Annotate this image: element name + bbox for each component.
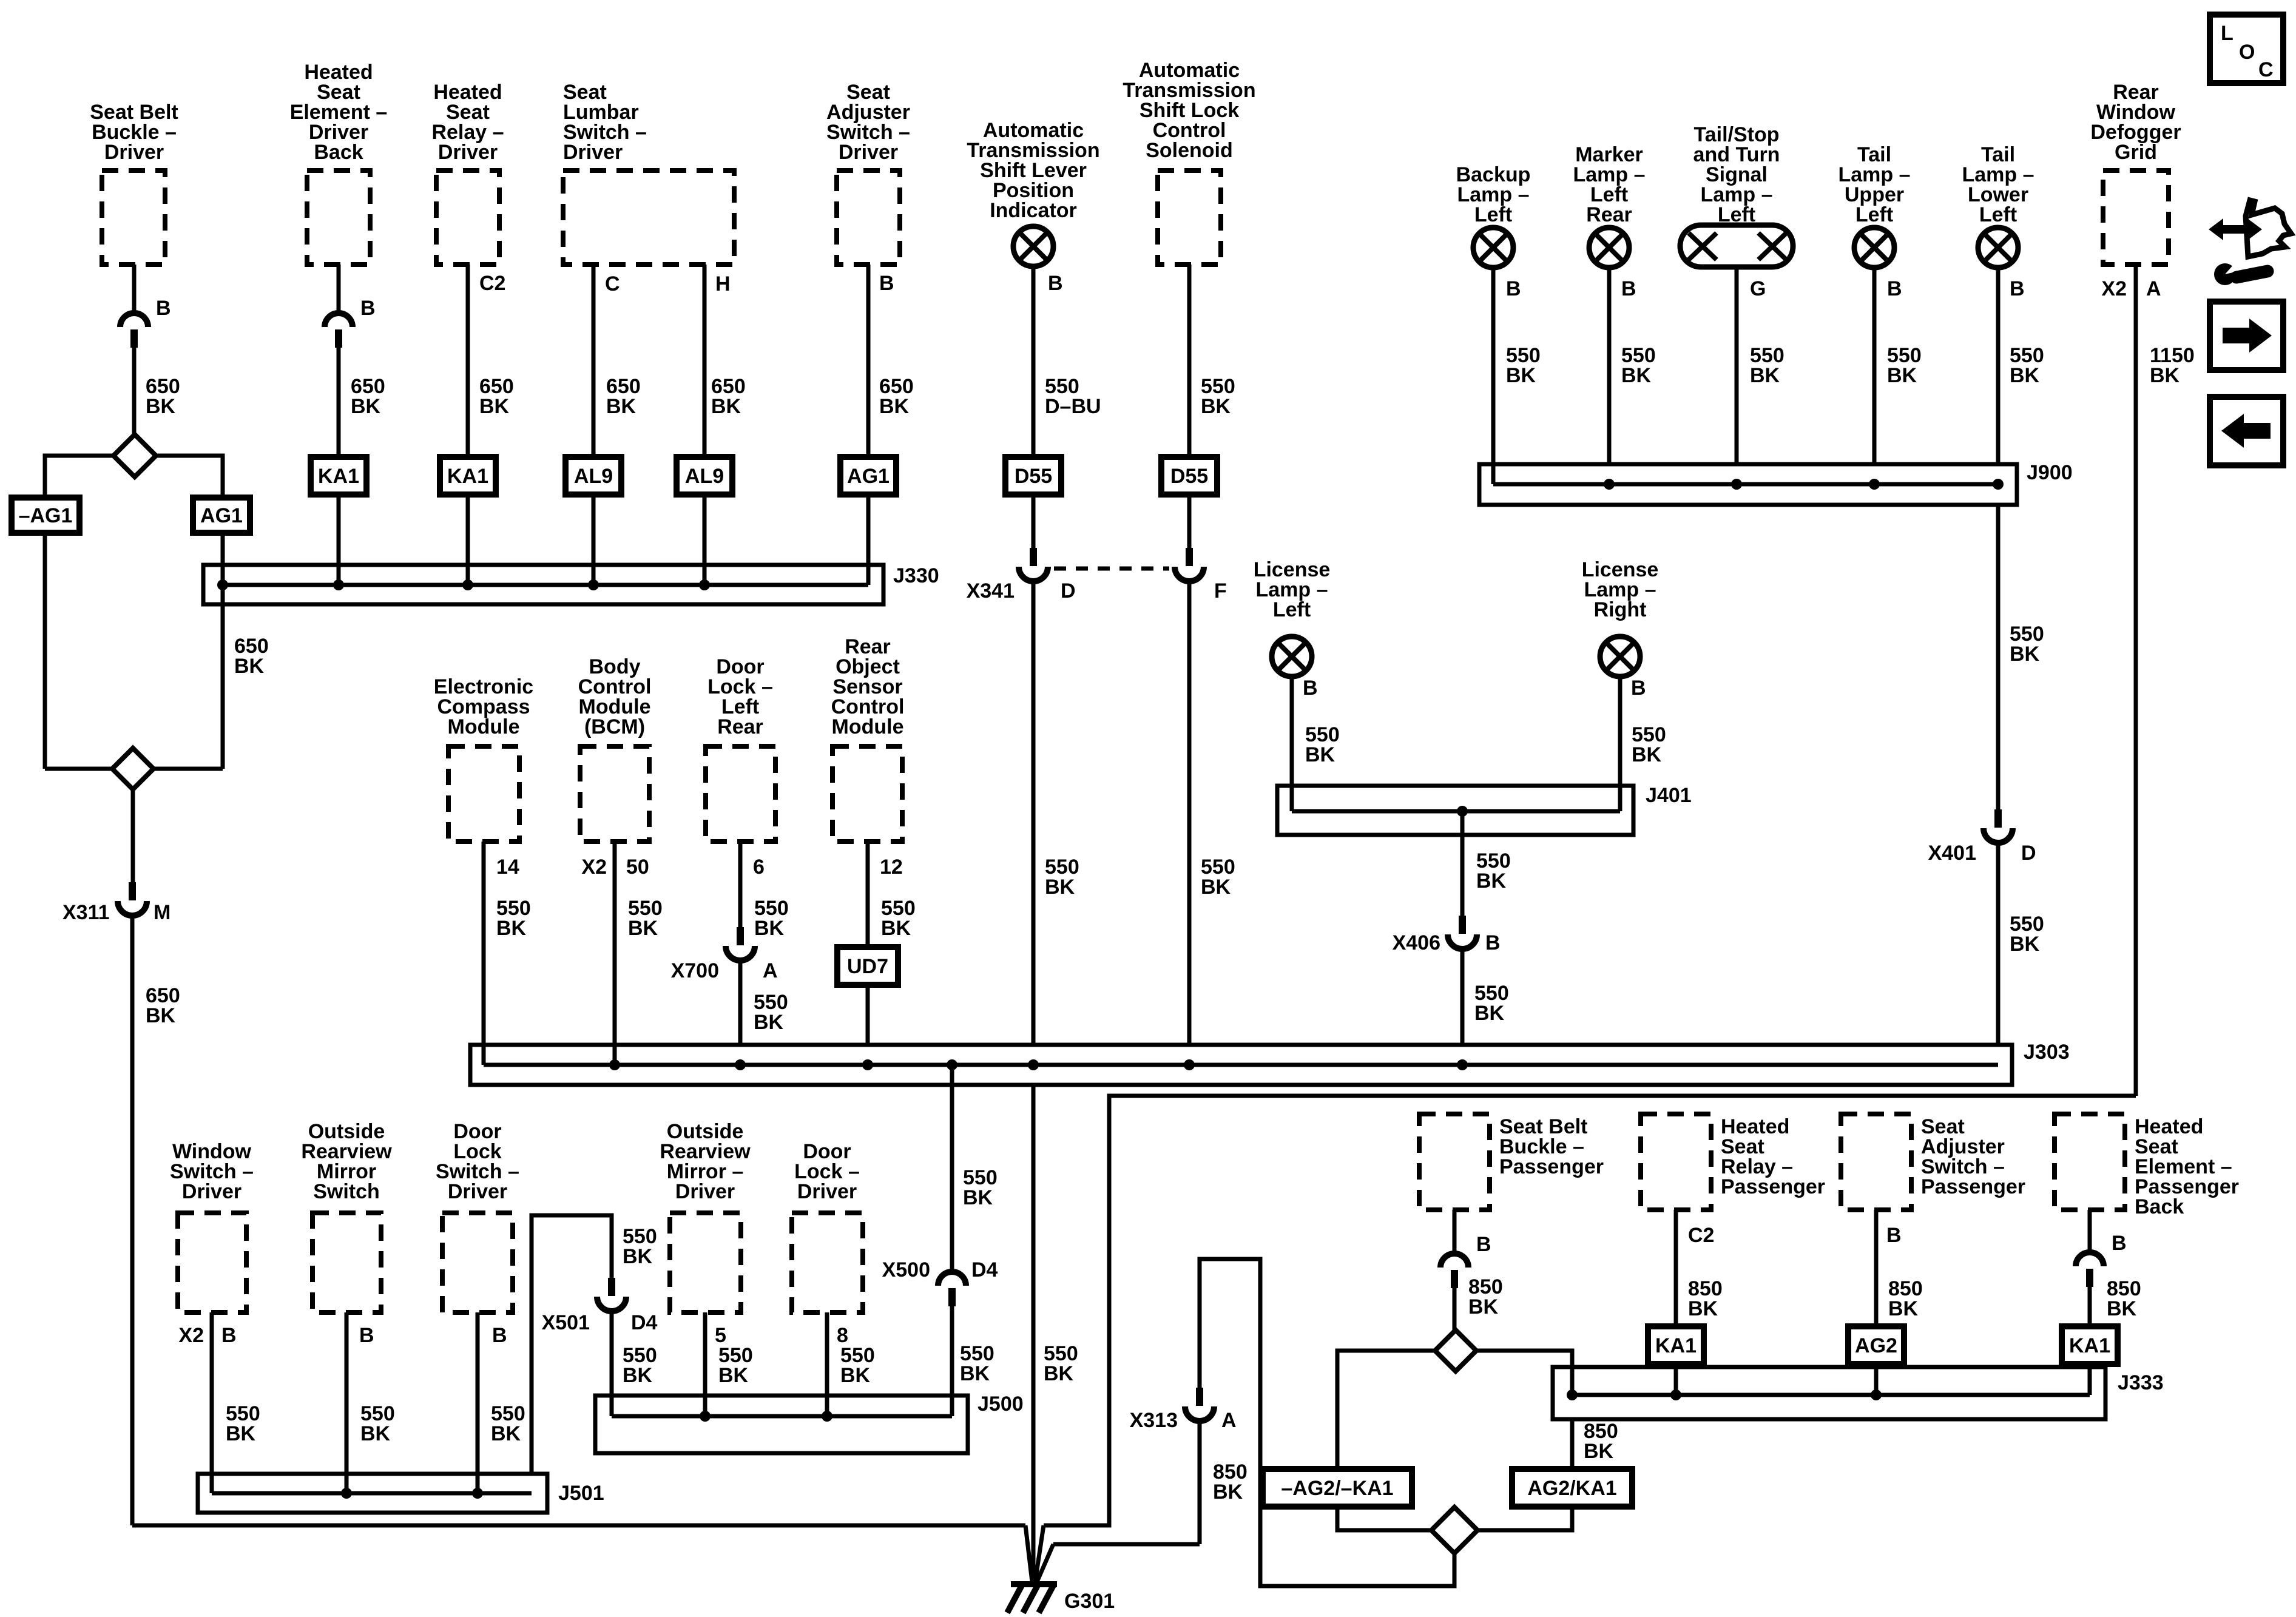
code box AG2/KA1 [1512,1469,1632,1507]
wire relay KA1 to J330 [466,495,470,585]
svg-text:Driver: Driver [797,1180,857,1203]
wire indicator pin B [1032,266,1036,457]
wire solenoid down [1187,265,1192,457]
svg-text:D: D [1061,579,1076,603]
svg-text:BK: BK [360,1422,391,1445]
wire splice S3 left branch to -AG2/-KA1 [1337,1351,1435,1469]
component Heated Seat Relay - Passenger [1641,1114,1711,1210]
svg-text:A: A [2146,277,2161,300]
svg-text:D4: D4 [971,1258,998,1281]
svg-text:M: M [154,901,171,924]
svg-text:AG1: AG1 [847,465,890,488]
svg-text:BK: BK [146,395,176,418]
svg-text:X311: X311 [62,901,110,924]
svg-text:C2: C2 [479,272,505,295]
svg-text:BK: BK [226,1422,256,1445]
wire BCM X2 pin 50 [613,842,617,1065]
svg-text:(BCM): (BCM) [584,715,645,738]
dashed connector tie X341 D to F [1054,567,1169,571]
connector X313 cavity A [1196,1388,1203,1406]
svg-text:B: B [1506,277,1521,300]
svg-text:BK: BK [960,1362,990,1385]
wire splice S4 ground loop to X313 [1200,1259,1454,1586]
svg-text:Driver: Driver [675,1180,735,1203]
lamp license right [1600,636,1640,677]
svg-text:B: B [1621,277,1636,300]
wire lumbar pin C [592,265,596,457]
wire splice to AG1 branches [45,456,113,498]
svg-text:G301: G301 [1064,1590,1115,1613]
bus J330 [203,565,883,604]
svg-text:C: C [2258,58,2274,81]
icon previous page arrow [2210,397,2283,465]
svg-text:Driver: Driver [563,141,623,164]
svg-text:BK: BK [351,395,381,418]
wire 550 BK X341 F to J303 [1187,581,1192,1045]
svg-text:Passenger: Passenger [1921,1175,2025,1198]
svg-text:B: B [156,297,171,320]
svg-text:BK: BK [491,1422,521,1445]
svg-text:BK: BK [1688,1297,1718,1320]
svg-text:BK: BK [2010,933,2040,956]
wire D55 to X341 D [1032,495,1036,548]
svg-text:KA1: KA1 [1655,1334,1697,1357]
svg-text:Driver: Driver [104,141,164,164]
svg-text:L: L [2221,22,2234,45]
svg-text:BK: BK [1632,743,1662,766]
svg-text:BK: BK [2010,643,2040,666]
svg-text:BK: BK [1213,1480,1243,1504]
svg-text:BK: BK [2107,1297,2137,1320]
wire tail upper B [1872,268,1877,464]
svg-text:C2: C2 [1688,1224,1714,1247]
wire J333 feed to AG2/KA1 [1570,1419,1575,1469]
lamp license left [1272,636,1312,677]
wire adjuster passenger pin B [1874,1210,1879,1326]
code box KA1 passenger element [2062,1326,2118,1364]
svg-text:J401: J401 [1646,784,1692,807]
svg-text:A: A [763,959,778,982]
wire relay KA1 to J333 [1674,1364,1678,1395]
wire buckle passenger stub [1453,1210,1457,1255]
svg-text:BK: BK [711,395,741,418]
svg-text:B: B [360,297,376,320]
wire relay passenger pin C2 [1674,1210,1678,1326]
svg-text:BK: BK [963,1186,993,1209]
svg-text:BK: BK [1887,364,1917,387]
svg-text:BK: BK [1201,395,1231,418]
svg-text:BK: BK [718,1364,749,1387]
code box AG2 passenger adjuster [1848,1326,1904,1364]
wire element KA1 to J333 [2088,1364,2092,1395]
svg-text:BK: BK [1468,1295,1499,1318]
connector B seat belt buckle passenger [1440,1254,1468,1268]
ground G301 [1011,1581,1057,1587]
svg-text:BK: BK [1201,876,1231,899]
wire 550 BK X700 to J303 [738,960,743,1045]
connector X700 cavity A [737,927,744,945]
svg-text:BK: BK [1045,876,1075,899]
wire element passenger stub [2088,1210,2092,1254]
svg-text:AL9: AL9 [574,465,613,488]
svg-text:B: B [1886,1224,1902,1247]
svg-text:12: 12 [880,856,903,879]
lamp marker left rear [1589,228,1629,268]
svg-text:G: G [1750,277,1766,300]
connector X311 M [129,882,136,900]
wire 550 BK X401 to J303 [1996,843,2001,1045]
svg-text:BK: BK [1305,743,1335,766]
svg-text:X406: X406 [1393,931,1440,954]
wire 650 BK J330 to splice S2 [221,604,225,769]
svg-text:B: B [879,272,894,295]
svg-text:BK: BK [623,1245,653,1268]
wire window switch X2 pin B [210,1312,214,1493]
svg-text:KA1: KA1 [318,465,359,488]
connector X401 cavity D [1994,809,2002,828]
icon repair instructions [2209,218,2262,240]
svg-text:J500: J500 [977,1393,1024,1416]
lamp tail lower left [1978,228,2018,268]
code box AG1 adjuster [840,457,896,495]
code box AL9 lumbar H [677,457,732,495]
connector X406 cavity B [1459,916,1466,934]
wire J501 riser to X501 [532,1215,612,1474]
wire 650 BK X311 to ground run [130,916,135,1525]
wire splice S3 right branch to J333 [1476,1351,1572,1395]
lamp backup left [1473,228,1513,268]
wire D55 to X341 F [1187,495,1192,548]
svg-text:H: H [715,272,731,295]
svg-text:BK: BK [840,1364,871,1387]
code box -AG2/-KA1 [1263,1469,1412,1507]
svg-text:UD7: UD7 [847,955,888,978]
wire 550 BK X406 to J303 [1460,949,1465,1045]
wire compass pin 14 [482,842,486,1065]
svg-text:AG2/KA1: AG2/KA1 [1527,1477,1616,1500]
wire ground run left horizontal [132,1524,1025,1528]
wire tail stop lamp G [1735,267,1739,464]
svg-text:KA1: KA1 [2069,1334,2110,1357]
code box KA1 driver element [311,457,366,495]
svg-text:Driver: Driver [438,141,498,164]
svg-text:BK: BK [496,917,527,940]
svg-text:BK: BK [1584,1440,1614,1463]
component Heated Seat Element - Passenger Back [2055,1114,2125,1210]
connector X501 cavity D4 [608,1278,615,1296]
svg-text:BK: BK [879,395,910,418]
svg-text:Passenger: Passenger [1499,1155,1604,1178]
svg-text:X2: X2 [581,856,607,879]
wire seat belt buckle stub [132,265,137,314]
svg-text:B: B [1631,677,1646,700]
wire lumbar H to J330 [703,495,707,585]
svg-text:X2: X2 [2101,277,2127,300]
wire splice S2 to X311 [131,789,135,882]
wire UD7 to J303 [866,985,870,1045]
bus J500 [595,1396,968,1453]
svg-text:Left: Left [1474,203,1512,226]
svg-text:C: C [605,272,620,295]
svg-text:Rear: Rear [1586,203,1632,226]
svg-text:BK: BK [1750,364,1780,387]
svg-text:KA1: KA1 [447,465,488,488]
svg-text:BK: BK [754,1011,784,1034]
svg-text:D4: D4 [631,1311,658,1334]
wire 650 BK seat belt buckle [132,348,137,435]
svg-text:D–BU: D–BU [1045,395,1101,418]
svg-text:BK: BK [2010,364,2040,387]
svg-text:14: 14 [496,856,519,879]
svg-text:Switch: Switch [313,1180,380,1203]
code box -AG1 [12,498,79,533]
wire adjuster pin B [866,265,871,457]
svg-text:BK: BK [1621,364,1652,387]
bus J900 [1479,464,2017,505]
wire marker lamp B [1607,268,1612,464]
code box KA1 passenger relay [1648,1326,1704,1364]
svg-text:B: B [2112,1232,2127,1255]
svg-text:Indicator: Indicator [990,199,1077,222]
svg-text:AG1: AG1 [200,504,243,527]
svg-text:BK: BK [234,655,265,678]
svg-text:Passenger: Passenger [1721,1175,1825,1198]
wire AG1 down through J330 [221,533,225,769]
wire adjuster AG1 to J330 [866,495,871,585]
svg-text:X401: X401 [1928,842,1976,865]
svg-text:BK: BK [1888,1297,1919,1320]
svg-text:B: B [1303,677,1318,700]
wire 550 BK X500 to J500 [950,1306,954,1416]
svg-text:BK: BK [2150,364,2180,387]
svg-text:B: B [1485,931,1501,954]
svg-text:B: B [1048,272,1063,295]
svg-text:Solenoid: Solenoid [1146,139,1233,162]
connector B heated seat element passenger [2076,1252,2104,1266]
svg-text:Left: Left [1855,203,1893,226]
splice S1 diamond [113,434,156,477]
svg-text:BK: BK [881,917,911,940]
wire license left B [1290,677,1294,811]
wire 550 BK J900 to X401 [1996,505,2001,809]
svg-text:B: B [221,1324,237,1347]
wire 550 BK X341 D to J303 [1032,581,1036,1045]
svg-text:J303: J303 [2024,1041,2070,1064]
code box KA1 driver relay [440,457,496,495]
wire door lock switch pin B [476,1312,480,1493]
svg-text:BK: BK [146,1004,176,1027]
wire heated seat relay pin C2 [466,265,470,457]
svg-text:B: B [1476,1233,1491,1256]
wire buckle passenger to splice S3 [1453,1288,1457,1331]
svg-text:6: 6 [753,856,765,879]
svg-text:X500: X500 [882,1258,930,1281]
svg-text:A: A [1221,1409,1237,1432]
svg-text:Driver: Driver [839,141,898,164]
svg-text:Left: Left [1273,598,1311,621]
wire rear object sensor pin 12 [866,842,870,947]
icon next page arrow [2210,302,2283,370]
legend LOC box [2210,15,2283,83]
wire 550 BK J303 to X500 [950,1065,954,1274]
wire 550 BK X501 to J500 [610,1311,614,1416]
wire door lock left rear pin 6 [738,842,743,927]
svg-text:Driver: Driver [182,1180,241,1203]
connector X500 cavity D4 [938,1272,966,1286]
svg-text:B: B [492,1324,507,1347]
wire lumbar pin H [703,265,707,457]
wire door lock driver pin 8 [825,1312,829,1416]
wire adjuster AG2 to J333 [1874,1364,1879,1395]
svg-text:Back: Back [314,141,363,164]
wire tail lower B [1996,268,2001,464]
svg-text:AG2: AG2 [1855,1334,1897,1357]
splice S2 diamond [45,767,112,771]
code box AG1 [193,498,250,533]
code box AL9 lumbar C [566,457,621,495]
lamp tail upper left [1854,228,1894,268]
wire -AG2/-KA1 to splice S4 [1337,1507,1433,1530]
svg-text:D: D [2021,842,2036,865]
svg-text:Back: Back [2135,1195,2184,1218]
svg-text:X313: X313 [1130,1409,1178,1432]
bus J401 [1277,786,1633,835]
svg-text:Driver: Driver [448,1180,507,1203]
svg-text:F: F [1214,579,1227,603]
svg-text:X700: X700 [671,959,719,982]
wire defogger ground run [1044,1096,2136,1525]
svg-text:–AG1: –AG1 [19,504,73,527]
svg-text:BK: BK [479,395,510,418]
svg-text:BK: BK [1474,1002,1505,1025]
component Seat Adjuster Switch - Passenger [1841,1114,1911,1210]
connector X341 cavity D [1030,548,1037,566]
svg-text:BK: BK [1476,869,1507,893]
wire AG2/KA1 to splice S4 [1479,1507,1572,1530]
code box D55 solenoid [1161,457,1217,495]
svg-text:Grid: Grid [2115,141,2157,164]
splice S3 diamond [1435,1330,1476,1371]
svg-text:Module: Module [448,715,520,738]
svg-text:AL9: AL9 [685,465,724,488]
svg-text:BK: BK [1044,1362,1074,1385]
svg-text:BK: BK [1506,364,1536,387]
wire lumbar C to J330 [592,495,596,585]
wire backup lamp B [1491,268,1496,484]
svg-text:X2: X2 [178,1324,204,1347]
svg-text:B: B [2010,277,2025,300]
svg-text:BK: BK [628,917,658,940]
svg-text:X341: X341 [967,579,1015,603]
wire mirror driver pin 5 [703,1312,707,1416]
svg-text:Rear: Rear [717,715,763,738]
svg-text:O: O [2239,41,2255,64]
wire 550 BK J401 to X406 [1460,811,1465,916]
wire KA1 to J330 [337,495,341,585]
code box UD7 [837,947,898,985]
svg-text:Left: Left [1979,203,2017,226]
svg-text:D55: D55 [1015,465,1052,488]
lamp tail stop turn dual [1680,225,1793,267]
svg-text:BK: BK [606,395,636,418]
svg-text:X501: X501 [542,1311,590,1334]
connector B heated seat element driver [325,313,353,327]
connector B seat belt buckle driver [120,313,148,327]
splice S4 diamond [1431,1507,1477,1553]
svg-text:D55: D55 [1170,465,1208,488]
bus J333 [1553,1367,2105,1419]
wire 550 BK J303 to G301 [1032,1085,1036,1584]
svg-text:Right: Right [1594,598,1647,621]
bus J303 [470,1045,2012,1085]
lamp shift lever position indicator [1013,226,1053,266]
wire element to KA1 [2088,1287,2092,1326]
svg-text:J501: J501 [558,1482,604,1505]
svg-text:B: B [359,1324,374,1347]
wire mirror switch pin B [345,1312,349,1493]
svg-text:50: 50 [626,856,649,879]
svg-text:BK: BK [754,917,785,940]
wire 650 BK heated seat element [337,348,341,457]
svg-text:–AG2/–KA1: –AG2/–KA1 [1281,1477,1393,1500]
connector X341 cavity F [1186,548,1193,566]
wire license right B [1618,677,1622,811]
wire -AG1 down [43,533,47,769]
svg-text:J900: J900 [2027,461,2073,484]
svg-text:Module: Module [832,715,904,738]
bus J501 [198,1474,547,1513]
svg-text:BK: BK [623,1364,653,1387]
svg-text:J333: J333 [2118,1371,2164,1394]
component Seat Belt Buckle - Passenger [1419,1114,1490,1210]
svg-text:B: B [1887,277,1902,300]
code box D55 indicator [1005,457,1061,495]
svg-text:J330: J330 [893,564,939,587]
wire 850 BK X313 to G301 [1198,1421,1202,1544]
wire 1150 BK defogger pin A [2134,265,2138,1096]
wire heated seat element stub [337,265,341,314]
